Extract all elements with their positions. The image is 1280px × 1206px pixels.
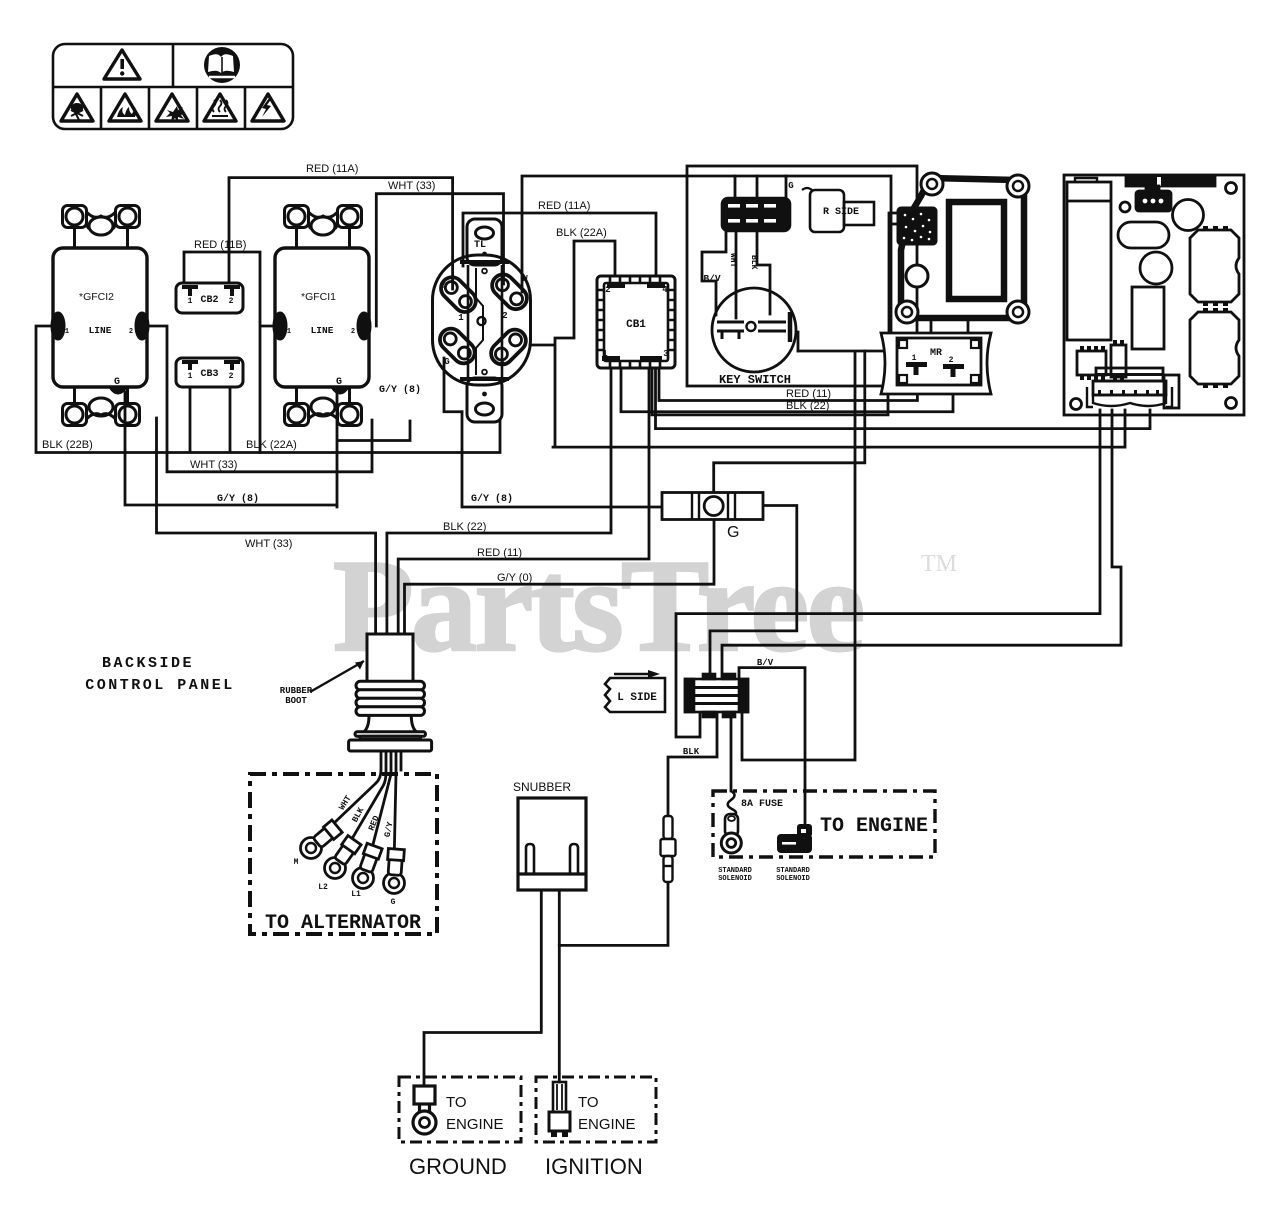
svg-text:TL: TL <box>474 240 486 251</box>
svg-text:RUBBER: RUBBER <box>280 686 313 696</box>
svg-text:BLK (22B): BLK (22B) <box>42 439 93 451</box>
svg-text:TO: TO <box>578 1094 599 1111</box>
svg-text:G: G <box>336 377 342 388</box>
svg-text:G: G <box>788 181 793 191</box>
svg-text:2: 2 <box>229 372 234 381</box>
svg-text:L2: L2 <box>318 883 328 892</box>
svg-text:2: 2 <box>229 297 234 306</box>
svg-text:1: 1 <box>65 328 69 336</box>
svg-text:ENGINE: ENGINE <box>446 1116 504 1133</box>
svg-text:G/Y (8): G/Y (8) <box>379 384 421 396</box>
svg-text:3: 3 <box>663 349 668 359</box>
svg-text:1: 1 <box>912 354 917 363</box>
svg-text:BOOT: BOOT <box>285 696 307 706</box>
svg-text:BLK (22): BLK (22) <box>443 521 486 533</box>
svg-text:G/Y (8): G/Y (8) <box>217 493 259 505</box>
svg-text:BLK: BLK <box>749 255 758 270</box>
svg-text:LINE: LINE <box>89 325 112 336</box>
svg-text:M: M <box>294 858 299 867</box>
svg-text:WHT (33): WHT (33) <box>388 180 435 192</box>
svg-text:KEY SWITCH: KEY SWITCH <box>719 373 791 387</box>
svg-text:BLK (22A): BLK (22A) <box>556 227 607 239</box>
svg-text:BLK: BLK <box>683 747 700 757</box>
svg-text:RED (11A): RED (11A) <box>538 200 590 212</box>
svg-text:2: 2 <box>129 328 133 336</box>
svg-text:G: G <box>444 357 449 367</box>
svg-text:LINE: LINE <box>311 325 334 336</box>
svg-text:RED (11B): RED (11B) <box>194 239 246 251</box>
svg-text:1: 1 <box>458 313 464 323</box>
svg-text:TM: TM <box>921 551 957 577</box>
svg-text:1: 1 <box>188 372 193 381</box>
svg-text:*GFCI1: *GFCI1 <box>301 291 336 303</box>
svg-text:SOLENOID: SOLENOID <box>718 875 752 883</box>
svg-text:IGNITION: IGNITION <box>545 1154 643 1179</box>
svg-text:4: 4 <box>662 285 668 295</box>
svg-text:Y: Y <box>440 281 446 291</box>
svg-text:GROUND: GROUND <box>409 1154 507 1179</box>
svg-text:1: 1 <box>188 297 193 306</box>
svg-text:G: G <box>114 377 120 388</box>
svg-text:L SIDE: L SIDE <box>617 692 657 704</box>
svg-text:*GFCI2: *GFCI2 <box>79 291 114 303</box>
svg-text:WHT (33): WHT (33) <box>190 459 237 471</box>
svg-text:TO ALTERNATOR: TO ALTERNATOR <box>265 912 421 935</box>
svg-text:3: 3 <box>499 357 504 367</box>
svg-text:2: 2 <box>605 285 610 295</box>
svg-text:CB1: CB1 <box>626 319 646 331</box>
svg-text:CB2: CB2 <box>200 295 218 306</box>
svg-text:SOLENOID: SOLENOID <box>776 875 810 883</box>
svg-text:8A FUSE: 8A FUSE <box>741 799 783 810</box>
svg-text:MR: MR <box>930 348 942 359</box>
svg-text:BACKSIDE: BACKSIDE <box>102 655 194 672</box>
svg-text:R SIDE: R SIDE <box>823 207 859 218</box>
svg-text:G: G <box>391 898 396 907</box>
svg-text:B/V: B/V <box>757 658 774 668</box>
svg-text:TO: TO <box>446 1094 467 1111</box>
svg-text:G: G <box>727 524 739 541</box>
svg-text:WHT: WHT <box>728 253 737 268</box>
svg-text:G/Y (0): G/Y (0) <box>497 572 532 584</box>
svg-text:2: 2 <box>502 311 507 321</box>
svg-text:L1: L1 <box>351 890 361 899</box>
svg-text:TO ENGINE: TO ENGINE <box>820 815 928 838</box>
svg-text:WHT (33): WHT (33) <box>245 538 292 550</box>
svg-text:RED (11A): RED (11A) <box>306 163 358 175</box>
svg-text:G/Y (8): G/Y (8) <box>471 493 513 505</box>
svg-text:CB3: CB3 <box>200 369 218 380</box>
svg-text:1: 1 <box>602 349 608 359</box>
svg-text:2: 2 <box>949 356 954 365</box>
svg-text:RED (11): RED (11) <box>477 547 522 559</box>
svg-text:BLK (22A): BLK (22A) <box>246 439 297 451</box>
svg-text:2: 2 <box>351 328 355 336</box>
svg-text:CONTROL PANEL: CONTROL PANEL <box>85 677 235 694</box>
svg-text:1: 1 <box>287 328 291 336</box>
svg-text:STANDARD: STANDARD <box>718 867 752 875</box>
svg-text:RED (11): RED (11) <box>786 388 831 400</box>
svg-text:SNUBBER: SNUBBER <box>513 780 571 794</box>
svg-text:BLK (22): BLK (22) <box>786 400 829 412</box>
svg-text:ENGINE: ENGINE <box>578 1116 636 1133</box>
svg-text:B/V: B/V <box>703 273 720 284</box>
svg-text:STANDARD: STANDARD <box>776 867 810 875</box>
svg-text:W: W <box>522 274 528 284</box>
